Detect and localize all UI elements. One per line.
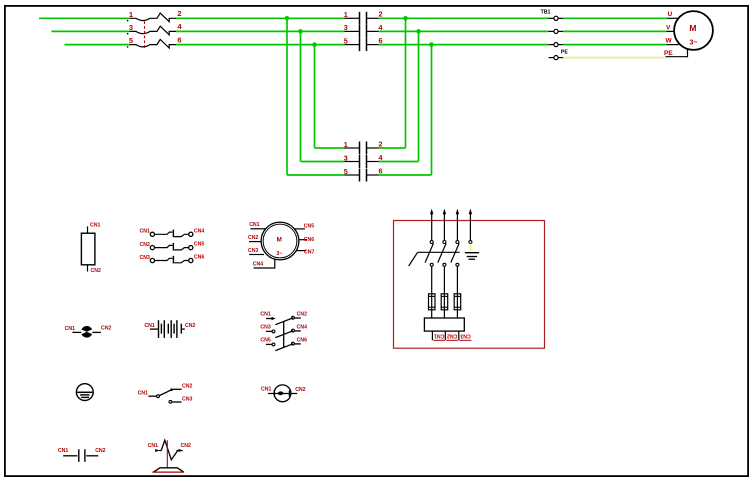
svg-text:CN3: CN3 <box>248 248 258 254</box>
svg-text:CN2: CN2 <box>185 323 195 329</box>
svg-text:CN1: CN1 <box>249 222 259 228</box>
svg-text:CN2: CN2 <box>181 443 191 449</box>
svg-text:3: 3 <box>344 23 348 32</box>
svg-text:6: 6 <box>177 35 181 44</box>
svg-text:CN3: CN3 <box>460 333 470 339</box>
svg-text:CN1: CN1 <box>144 323 154 329</box>
svg-text:CN1: CN1 <box>140 229 150 235</box>
svg-text:CN1: CN1 <box>65 326 75 332</box>
svg-text:6: 6 <box>379 36 383 45</box>
svg-text:CN2: CN2 <box>447 333 457 339</box>
svg-text:4: 4 <box>177 22 182 31</box>
svg-text:W: W <box>666 38 673 45</box>
svg-text:CN2: CN2 <box>140 242 150 248</box>
svg-text:CN4: CN4 <box>297 325 307 331</box>
svg-text:TB1: TB1 <box>541 10 551 16</box>
svg-text:3~: 3~ <box>690 39 698 46</box>
svg-text:CN1: CN1 <box>260 312 270 318</box>
svg-text:CN1: CN1 <box>148 443 158 449</box>
svg-text:CN5: CN5 <box>194 242 204 248</box>
svg-text:2: 2 <box>177 9 181 18</box>
svg-text:3: 3 <box>129 23 133 32</box>
svg-text:2: 2 <box>379 139 383 148</box>
svg-text:M: M <box>689 23 696 33</box>
svg-text:CN2: CN2 <box>248 235 258 241</box>
svg-text:3~: 3~ <box>276 251 282 257</box>
svg-text:4: 4 <box>379 23 383 32</box>
svg-text:CN2: CN2 <box>297 312 307 318</box>
svg-text:CN2: CN2 <box>95 448 105 454</box>
svg-text:CN3: CN3 <box>182 397 192 403</box>
svg-text:CN2: CN2 <box>182 384 192 390</box>
svg-text:CN4: CN4 <box>194 228 204 234</box>
svg-text:CN5: CN5 <box>304 224 314 230</box>
svg-text:CN1: CN1 <box>90 223 100 229</box>
svg-text:6: 6 <box>379 166 383 175</box>
svg-text:5: 5 <box>129 36 133 45</box>
svg-text:CN1: CN1 <box>434 333 444 339</box>
svg-text:CN1: CN1 <box>138 391 148 397</box>
svg-text:CN5: CN5 <box>260 338 270 344</box>
svg-text:CN3: CN3 <box>260 325 270 331</box>
svg-text:V: V <box>666 25 671 32</box>
svg-text:CN6: CN6 <box>297 338 307 344</box>
svg-text:PE: PE <box>561 50 568 56</box>
svg-text:CN2: CN2 <box>295 387 305 393</box>
svg-text:1: 1 <box>129 10 133 19</box>
svg-text:1: 1 <box>344 10 348 19</box>
svg-text:2: 2 <box>379 10 383 19</box>
svg-text:CN6: CN6 <box>194 255 204 261</box>
svg-text:5: 5 <box>344 36 348 45</box>
svg-text:U: U <box>668 11 673 18</box>
svg-text:4: 4 <box>379 153 383 162</box>
svg-text:CN7: CN7 <box>304 250 314 256</box>
svg-text:CN4: CN4 <box>253 262 263 268</box>
svg-text:CN3: CN3 <box>140 255 150 261</box>
svg-text:PE: PE <box>664 50 673 57</box>
svg-text:CN2: CN2 <box>91 268 101 274</box>
svg-text:CN1: CN1 <box>58 448 68 454</box>
svg-text:CN6: CN6 <box>304 237 314 243</box>
svg-text:CN2: CN2 <box>101 326 111 332</box>
svg-text:M: M <box>276 237 281 244</box>
svg-text:CN1: CN1 <box>261 386 271 392</box>
